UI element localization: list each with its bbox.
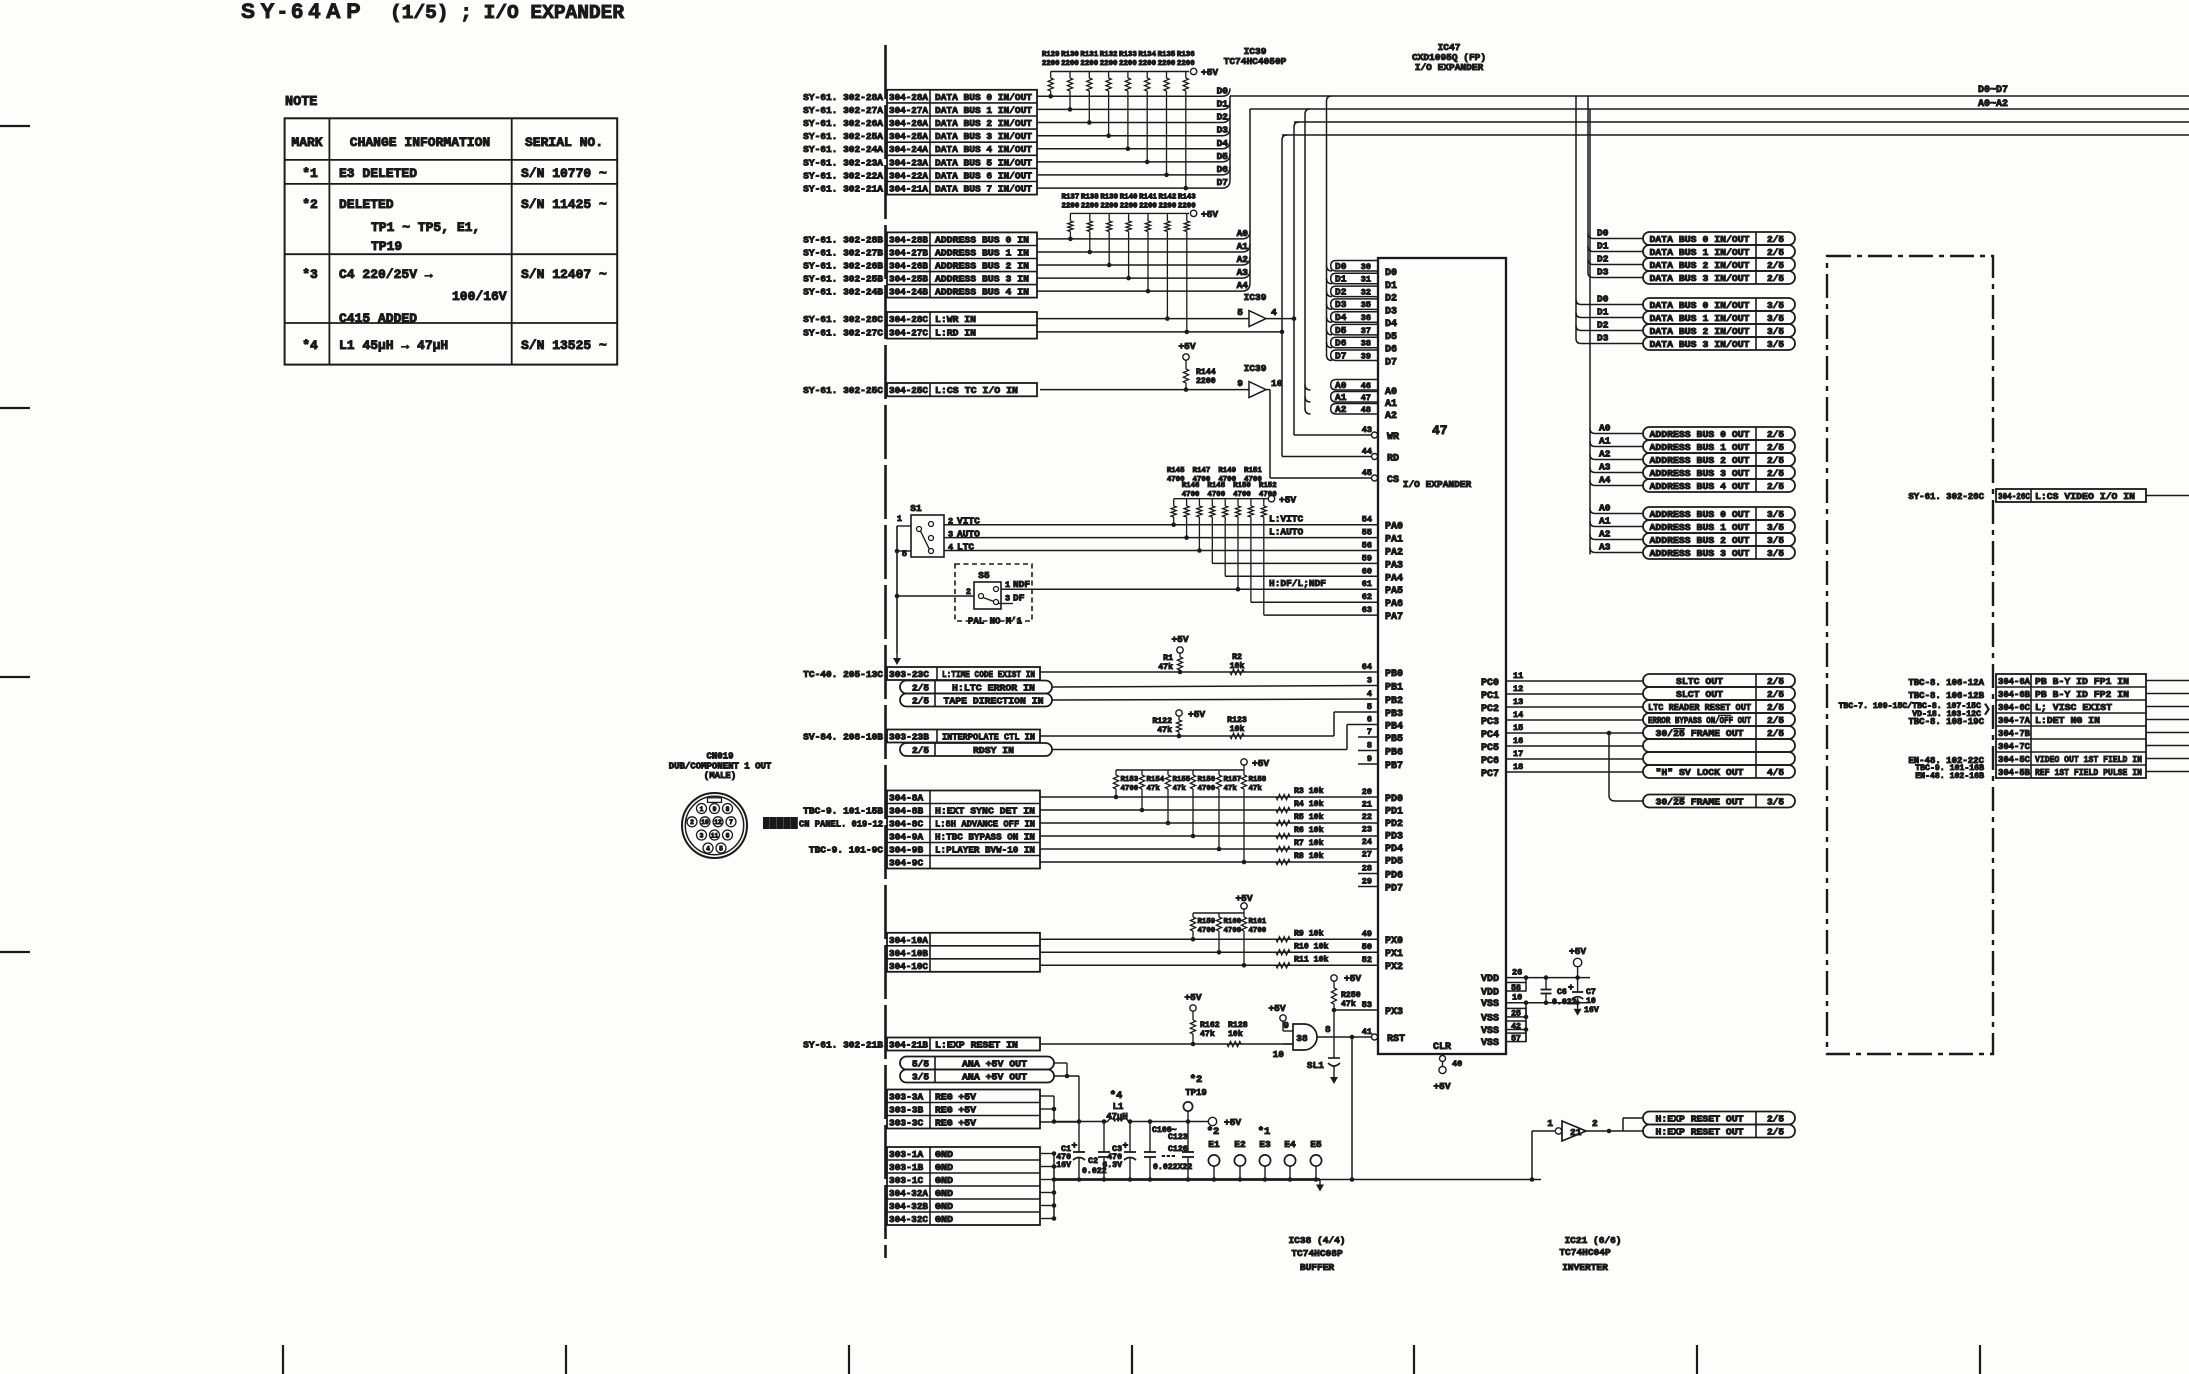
- svg-text:100/16V: 100/16V: [452, 289, 507, 304]
- svg-text:L:CS TC I/O IN: L:CS TC I/O IN: [935, 385, 1018, 396]
- svg-text:A0: A0: [1237, 228, 1249, 239]
- svg-text:D1: D1: [1385, 281, 1397, 292]
- svg-text:26: 26: [1512, 968, 1522, 978]
- svg-text:GND: GND: [935, 1175, 953, 1186]
- svg-text:DATA BUS 0 IN/OUT: DATA BUS 0 IN/OUT: [935, 92, 1032, 103]
- svg-text:7: 7: [729, 819, 733, 826]
- svg-text:SY-61. 302-28A: SY-61. 302-28A: [803, 92, 883, 103]
- svg-text:*4: *4: [1110, 1090, 1123, 1102]
- svg-text:*2: *2: [1207, 1126, 1220, 1138]
- svg-text:MARK: MARK: [291, 135, 322, 150]
- svg-text:2/5: 2/5: [1767, 676, 1784, 687]
- svg-text:ADDRESS BUS 1 OUT: ADDRESS BUS 1 OUT: [1650, 442, 1750, 453]
- svg-text:27: 27: [1362, 850, 1372, 860]
- svg-text:44: 44: [1362, 447, 1372, 457]
- svg-text:S/N 11425 ~: S/N 11425 ~: [521, 197, 607, 212]
- svg-text:PA1: PA1: [1385, 535, 1403, 546]
- svg-text:46: 46: [1361, 381, 1371, 391]
- svg-text:R156: R156: [1198, 776, 1216, 784]
- svg-text:CN019: CN019: [706, 752, 733, 762]
- svg-text:57: 57: [1511, 1034, 1521, 1043]
- svg-text:4700: 4700: [1121, 785, 1139, 793]
- svg-text:DATA BUS 1 IN/OUT: DATA BUS 1 IN/OUT: [935, 105, 1032, 116]
- svg-text:RST: RST: [1387, 1034, 1405, 1045]
- svg-text:SY-61. 302-26A: SY-61. 302-26A: [803, 118, 883, 129]
- svg-text:+: +: [1123, 1140, 1129, 1151]
- svg-text:8: 8: [1325, 1024, 1331, 1035]
- svg-text:ADDRESS BUS 2 OUT: ADDRESS BUS 2 OUT: [1650, 535, 1750, 546]
- svg-text:2200: 2200: [1119, 60, 1137, 68]
- svg-text:5/5: 5/5: [912, 1059, 929, 1070]
- svg-text:ADDRESS BUS 2 IN: ADDRESS BUS 2 IN: [935, 261, 1029, 272]
- svg-text:A0: A0: [1385, 387, 1397, 398]
- svg-text:30/25 FRAME OUT: 30/25 FRAME OUT: [1656, 797, 1744, 808]
- svg-text:R152: R152: [1259, 482, 1277, 490]
- svg-text:ADDRESS BUS 4 IN: ADDRESS BUS 4 IN: [935, 287, 1029, 298]
- svg-text:1: 1: [897, 514, 902, 524]
- svg-text:REG +5V: REG +5V: [935, 1118, 976, 1129]
- svg-text:TC74HC08P: TC74HC08P: [1291, 1248, 1343, 1259]
- svg-text:R149: R149: [1218, 467, 1236, 475]
- svg-text:PD7: PD7: [1385, 884, 1403, 895]
- svg-text:D0: D0: [1597, 228, 1609, 239]
- svg-text:PC0: PC0: [1481, 678, 1499, 689]
- svg-text:D0: D0: [1335, 261, 1347, 272]
- svg-text:A3: A3: [1599, 542, 1611, 553]
- svg-text:SY-61. 302-28B: SY-61. 302-28B: [803, 234, 883, 245]
- svg-text:47: 47: [1361, 393, 1371, 403]
- svg-text:TBC-8. 106-12B: TBC-8. 106-12B: [1908, 691, 1984, 701]
- svg-text:2200: 2200: [1042, 60, 1060, 68]
- svg-text:3/5: 3/5: [1767, 535, 1784, 546]
- svg-text:PA3: PA3: [1385, 560, 1403, 571]
- svg-text:13: 13: [1513, 697, 1523, 707]
- svg-text:R142: R142: [1159, 194, 1177, 202]
- svg-text:SLCT OUT: SLCT OUT: [1676, 689, 1723, 700]
- svg-text:4: 4: [1271, 307, 1277, 318]
- svg-text:R145: R145: [1167, 467, 1185, 475]
- svg-text:SY-61. 302-28C: SY-61. 302-28C: [803, 314, 883, 325]
- svg-text:43: 43: [1362, 425, 1372, 435]
- svg-text:PD0: PD0: [1385, 794, 1403, 805]
- svg-text:D3: D3: [1217, 125, 1229, 136]
- svg-text:5: 5: [1367, 702, 1372, 712]
- svg-text:A4: A4: [1237, 280, 1249, 291]
- svg-text:304-22A: 304-22A: [889, 170, 928, 181]
- svg-text:SY-61. 302-21B: SY-61. 302-21B: [803, 1040, 883, 1051]
- svg-text:304-25B: 304-25B: [889, 274, 928, 285]
- svg-text:A1: A1: [1335, 392, 1347, 403]
- svg-text:L:8H ADVANCE OFF IN: L:8H ADVANCE OFF IN: [935, 819, 1035, 830]
- svg-text:REG +5V: REG +5V: [935, 1105, 976, 1116]
- svg-text:3/5: 3/5: [1767, 339, 1784, 350]
- svg-text:PC7: PC7: [1481, 769, 1499, 780]
- svg-text:38: 38: [1296, 1033, 1308, 1044]
- svg-text:25: 25: [1511, 1010, 1521, 1019]
- svg-text:+5V: +5V: [1252, 758, 1269, 769]
- svg-text:PB6: PB6: [1385, 748, 1403, 759]
- svg-text:VDD: VDD: [1481, 988, 1499, 999]
- svg-text:12: 12: [714, 819, 722, 826]
- svg-text:PA4: PA4: [1385, 573, 1403, 584]
- svg-text:SY-61. 302-27A: SY-61. 302-27A: [803, 105, 883, 116]
- svg-text:+: +: [1568, 982, 1574, 993]
- svg-text:R153: R153: [1121, 776, 1139, 784]
- svg-text:IC21 (6/6): IC21 (6/6): [1564, 1235, 1621, 1246]
- svg-text:SY-61. 302-26B: SY-61. 302-26B: [803, 261, 883, 272]
- svg-text:PC5: PC5: [1481, 743, 1499, 754]
- svg-text:304-24A: 304-24A: [889, 144, 928, 155]
- svg-text:4700: 4700: [1224, 927, 1242, 935]
- svg-text:304-7C: 304-7C: [1998, 741, 2030, 752]
- svg-text:53: 53: [1362, 1000, 1372, 1010]
- svg-text:A0: A0: [1599, 503, 1611, 514]
- svg-text:SY-61. 302-24A: SY-61. 302-24A: [803, 144, 883, 155]
- svg-text:R5 10k: R5 10k: [1294, 812, 1324, 822]
- svg-text:R150: R150: [1233, 482, 1251, 490]
- svg-text:303-3A: 303-3A: [889, 1092, 924, 1103]
- svg-text:D2: D2: [1597, 254, 1609, 265]
- svg-text:16V: 16V: [1584, 1006, 1599, 1015]
- svg-text:3: 3: [700, 832, 704, 839]
- svg-text:+: +: [1072, 1140, 1078, 1151]
- svg-text:R155: R155: [1173, 776, 1191, 784]
- svg-text:ADDRESS BUS 2 OUT: ADDRESS BUS 2 OUT: [1650, 455, 1750, 466]
- svg-text:R135: R135: [1158, 51, 1176, 59]
- svg-text:*1: *1: [302, 166, 318, 181]
- svg-text:47k: 47k: [1249, 785, 1263, 793]
- svg-text:DATA BUS 1 IN/OUT: DATA BUS 1 IN/OUT: [1650, 247, 1750, 258]
- svg-text:3/5: 3/5: [1767, 548, 1784, 559]
- svg-text:C415 ADDED: C415 ADDED: [339, 311, 417, 326]
- svg-text:304-23A: 304-23A: [889, 157, 928, 168]
- svg-text:304-8A: 304-8A: [889, 793, 924, 804]
- svg-text:38: 38: [1361, 339, 1371, 349]
- svg-text:PC3: PC3: [1481, 717, 1499, 728]
- svg-text:I/O EXPANDER: I/O EXPANDER: [1415, 62, 1484, 73]
- svg-text:INTERPOLATE CTL IN: INTERPOLATE CTL IN: [942, 732, 1035, 743]
- svg-text:R7 10k: R7 10k: [1294, 838, 1324, 848]
- svg-text:D0: D0: [1385, 268, 1397, 279]
- svg-text:2200: 2200: [1138, 60, 1156, 68]
- svg-text:56: 56: [1362, 541, 1372, 551]
- svg-text:304-26B: 304-26B: [889, 261, 928, 272]
- svg-text:8: 8: [1367, 741, 1372, 751]
- svg-text:3/5: 3/5: [1767, 797, 1784, 808]
- svg-text:R129: R129: [1042, 51, 1060, 59]
- svg-text:L1: L1: [1113, 1102, 1124, 1112]
- svg-text:PD4: PD4: [1385, 844, 1403, 855]
- svg-text:2/5: 2/5: [1767, 481, 1784, 492]
- svg-text:304-21A: 304-21A: [889, 184, 928, 195]
- svg-text:SY-61. 302-22A: SY-61. 302-22A: [803, 170, 883, 181]
- svg-text:*4: *4: [302, 338, 318, 353]
- svg-text:NOTE: NOTE: [285, 95, 317, 110]
- svg-text:PA6: PA6: [1385, 599, 1403, 610]
- svg-text:INVERTER: INVERTER: [1562, 1262, 1608, 1273]
- svg-text:DATA BUS 5 IN/OUT: DATA BUS 5 IN/OUT: [935, 157, 1032, 168]
- svg-text:R140: R140: [1120, 194, 1138, 202]
- svg-text:D7: D7: [1385, 358, 1397, 369]
- svg-text:---: ---: [1161, 1152, 1176, 1161]
- svg-text:+5V: +5V: [1279, 495, 1296, 506]
- svg-text:PB1: PB1: [1385, 683, 1403, 694]
- svg-text:24: 24: [1362, 837, 1372, 847]
- svg-text:R4 10k: R4 10k: [1294, 799, 1324, 809]
- svg-text:SY-64AP: SY-64AP: [241, 0, 366, 23]
- svg-text:4: 4: [706, 845, 710, 852]
- svg-text:D2: D2: [1385, 294, 1397, 305]
- svg-text:R141: R141: [1139, 194, 1157, 202]
- svg-text:47k: 47k: [1157, 725, 1172, 735]
- svg-text:+5V: +5V: [1224, 1117, 1241, 1128]
- svg-text:30/25 FRAME OUT: 30/25 FRAME OUT: [1656, 728, 1744, 739]
- svg-text:1: 1: [1547, 1118, 1553, 1129]
- svg-text:CLR: CLR: [1433, 1042, 1451, 1053]
- svg-text:D4: D4: [1335, 312, 1347, 323]
- svg-text:ADDRESS BUS 4 OUT: ADDRESS BUS 4 OUT: [1650, 481, 1750, 492]
- svg-text:D2: D2: [1335, 286, 1347, 297]
- svg-text:2/5: 2/5: [1767, 260, 1784, 271]
- svg-text:DATA BUS 3 IN/OUT: DATA BUS 3 IN/OUT: [1650, 339, 1750, 350]
- svg-text:A2: A2: [1599, 449, 1611, 460]
- svg-text:SERIAL NO.: SERIAL NO.: [525, 135, 603, 150]
- svg-text:2200: 2200: [1100, 60, 1118, 68]
- svg-text:ADDRESS BUS 3 OUT: ADDRESS BUS 3 OUT: [1650, 548, 1750, 559]
- svg-text:TC74HC4050P: TC74HC4050P: [1224, 56, 1287, 67]
- svg-text:4700: 4700: [1182, 491, 1200, 499]
- svg-text:5: 5: [1237, 307, 1243, 318]
- svg-text:PX1: PX1: [1385, 949, 1403, 960]
- svg-text:DATA BUS 4 IN/OUT: DATA BUS 4 IN/OUT: [935, 144, 1032, 155]
- svg-text:TBC-8. 108-19C: TBC-8. 108-19C: [1908, 717, 1984, 727]
- svg-text:DATA BUS 2 IN/OUT: DATA BUS 2 IN/OUT: [935, 118, 1032, 129]
- svg-text:14: 14: [1513, 710, 1523, 720]
- svg-text:SY-61. 302-25B: SY-61. 302-25B: [803, 274, 883, 285]
- svg-text:A1: A1: [1385, 399, 1397, 410]
- svg-text:D5: D5: [1217, 151, 1229, 162]
- svg-text:11: 11: [711, 832, 719, 839]
- svg-text:47k: 47k: [1173, 785, 1187, 793]
- svg-text:PA5: PA5: [1385, 586, 1403, 597]
- svg-text:2200: 2200: [1120, 203, 1138, 211]
- svg-text:D7: D7: [1335, 350, 1347, 361]
- svg-text:DF: DF: [1013, 593, 1025, 604]
- svg-text:47µH: 47µH: [1106, 1112, 1128, 1122]
- svg-text:E2: E2: [1234, 1139, 1246, 1150]
- svg-text:SV-84. 208-10B: SV-84. 208-10B: [803, 732, 883, 743]
- svg-text:304-8B: 304-8B: [889, 806, 924, 817]
- svg-text:3/5: 3/5: [912, 1072, 929, 1083]
- svg-text:2200: 2200: [1139, 203, 1157, 211]
- svg-text:REG +5V: REG +5V: [935, 1092, 976, 1103]
- svg-text:D6: D6: [1335, 338, 1347, 349]
- svg-text:A1: A1: [1237, 241, 1249, 252]
- svg-text:CN PANEL. 019-12: CN PANEL. 019-12: [799, 820, 883, 830]
- svg-text:S1: S1: [910, 503, 922, 514]
- svg-text:A2: A2: [1335, 404, 1347, 415]
- svg-text:61: 61: [1362, 579, 1372, 589]
- svg-text:A3: A3: [1237, 267, 1249, 278]
- svg-text:7: 7: [1367, 727, 1372, 737]
- svg-text:4700: 4700: [1259, 491, 1277, 499]
- svg-text:LTC READER RESET OUT: LTC READER RESET OUT: [1648, 702, 1751, 713]
- svg-text:R148: R148: [1207, 482, 1225, 490]
- svg-text:R1: R1: [1163, 654, 1173, 663]
- svg-text:303-1A: 303-1A: [889, 1149, 924, 1160]
- svg-text:D1: D1: [1597, 307, 1609, 318]
- svg-text:16V: 16V: [1056, 1161, 1071, 1170]
- svg-text:49: 49: [1362, 929, 1372, 939]
- svg-text:R130: R130: [1061, 51, 1079, 59]
- svg-text:2/5: 2/5: [1767, 442, 1784, 453]
- svg-text:PD2: PD2: [1385, 819, 1403, 830]
- svg-text:304-27A: 304-27A: [889, 105, 928, 116]
- svg-text:D7: D7: [1217, 177, 1229, 188]
- svg-text:DELETED: DELETED: [339, 197, 394, 212]
- svg-text:PB B-Y ID FP1 IN: PB B-Y ID FP1 IN: [2035, 676, 2129, 687]
- svg-text:47k: 47k: [1341, 999, 1356, 1009]
- svg-text:32: 32: [1361, 287, 1371, 297]
- svg-text:16: 16: [1513, 736, 1523, 746]
- svg-text:E4: E4: [1284, 1139, 1296, 1150]
- svg-text:+5V: +5V: [1201, 67, 1218, 78]
- svg-text:DATA BUS 1 IN/OUT: DATA BUS 1 IN/OUT: [1650, 313, 1750, 324]
- svg-text:NDF: NDF: [1013, 579, 1030, 590]
- svg-text:H:EXP RESET OUT: H:EXP RESET OUT: [1656, 1114, 1744, 1125]
- svg-text:R136: R136: [1177, 51, 1195, 59]
- svg-text:PC6: PC6: [1481, 756, 1499, 767]
- svg-text:2200: 2200: [1159, 203, 1177, 211]
- svg-text:+5V: +5V: [1569, 946, 1586, 957]
- svg-text:R134: R134: [1138, 51, 1156, 59]
- svg-text:+5V: +5V: [1178, 341, 1195, 352]
- svg-text:D0~D7: D0~D7: [1978, 85, 2008, 96]
- svg-text:+5V: +5V: [1201, 209, 1218, 220]
- svg-text:304-25A: 304-25A: [889, 131, 928, 142]
- svg-text:58: 58: [1511, 984, 1521, 993]
- svg-text:R6 10k: R6 10k: [1294, 825, 1324, 835]
- svg-text:D1: D1: [1597, 241, 1609, 252]
- svg-text:36: 36: [1361, 313, 1371, 323]
- svg-text:4700: 4700: [1207, 491, 1225, 499]
- svg-text:2/5: 2/5: [1767, 715, 1784, 726]
- svg-text:304-28A: 304-28A: [889, 92, 928, 103]
- svg-text:L:DET NG IN: L:DET NG IN: [2035, 715, 2100, 726]
- svg-text:ANA +5V OUT: ANA +5V OUT: [962, 1072, 1027, 1083]
- svg-text:304-7B: 304-7B: [1998, 728, 2030, 739]
- svg-text:303-1C: 303-1C: [889, 1175, 924, 1186]
- svg-text:2200: 2200: [1196, 377, 1216, 386]
- svg-text:R158: R158: [1249, 776, 1267, 784]
- svg-text:E3 DELETED: E3 DELETED: [339, 166, 417, 181]
- svg-text:63: 63: [1362, 605, 1372, 615]
- svg-text:10k: 10k: [1228, 1029, 1243, 1039]
- svg-text:R10 10k: R10 10k: [1294, 941, 1328, 951]
- svg-text:2200: 2200: [1081, 203, 1099, 211]
- svg-text:L; VISC EXIST: L; VISC EXIST: [2035, 702, 2112, 713]
- svg-text:304-32B: 304-32B: [889, 1201, 928, 1212]
- svg-text:304-7A: 304-7A: [1998, 715, 2030, 726]
- svg-text:R160: R160: [1224, 918, 1242, 926]
- svg-text:PX3: PX3: [1385, 1007, 1403, 1018]
- svg-text:11: 11: [1513, 671, 1523, 681]
- svg-text:D4: D4: [1217, 138, 1229, 149]
- svg-text:D6: D6: [1385, 345, 1397, 356]
- svg-text:2200: 2200: [1062, 203, 1080, 211]
- svg-text:RD: RD: [1387, 454, 1399, 465]
- svg-text:1: 1: [700, 806, 704, 813]
- svg-text:6.3V: 6.3V: [1102, 1161, 1122, 1170]
- svg-text:9: 9: [1283, 1020, 1289, 1031]
- svg-text:303-23B: 303-23B: [889, 732, 929, 743]
- svg-text:C6: C6: [1557, 988, 1567, 997]
- svg-text:A0~A2: A0~A2: [1978, 99, 2008, 110]
- svg-text:ADDRESS BUS 1 OUT: ADDRESS BUS 1 OUT: [1650, 522, 1750, 533]
- svg-text:4: 4: [1367, 689, 1372, 699]
- svg-text:2: 2: [690, 819, 694, 826]
- svg-text:2/5: 2/5: [912, 683, 929, 694]
- svg-text:4700: 4700: [1249, 927, 1267, 935]
- svg-text:SY-61. 302-25A: SY-61. 302-25A: [803, 131, 883, 142]
- svg-text:GND: GND: [935, 1188, 953, 1199]
- svg-text:SY-61. 302-27C: SY-61. 302-27C: [803, 327, 883, 338]
- svg-text:PD3: PD3: [1385, 832, 1403, 843]
- svg-text:TP19: TP19: [1185, 1088, 1207, 1098]
- svg-text:S5: S5: [978, 570, 990, 581]
- svg-text:D0: D0: [1597, 294, 1609, 305]
- svg-text:47: 47: [1432, 423, 1448, 438]
- svg-text:R9 10k: R9 10k: [1294, 928, 1324, 938]
- svg-text:+5V: +5V: [1344, 973, 1361, 984]
- svg-text:304-24B: 304-24B: [889, 287, 928, 298]
- svg-text:D3: D3: [1385, 306, 1397, 317]
- svg-text:C4 220/25V →: C4 220/25V →: [339, 267, 433, 282]
- svg-text:5: 5: [719, 845, 723, 852]
- svg-text:3/5: 3/5: [1767, 313, 1784, 324]
- svg-text:304-5C: 304-5C: [1998, 754, 2030, 765]
- svg-text:REF 1ST FIELD PULSE IN: REF 1ST FIELD PULSE IN: [2035, 767, 2142, 778]
- svg-text:2/5: 2/5: [912, 745, 929, 756]
- svg-text:R3 10k: R3 10k: [1294, 786, 1324, 796]
- svg-text:DATA BUS 0 IN/OUT: DATA BUS 0 IN/OUT: [1650, 300, 1750, 311]
- svg-text:D2: D2: [1597, 320, 1609, 331]
- svg-text:WR: WR: [1387, 432, 1399, 443]
- svg-text:R250: R250: [1341, 991, 1361, 1000]
- svg-text:30: 30: [1361, 262, 1371, 272]
- svg-text:304-6B: 304-6B: [1998, 689, 2030, 700]
- svg-text:R128: R128: [1228, 1021, 1248, 1030]
- svg-text:ADDRESS BUS 0 OUT: ADDRESS BUS 0 OUT: [1650, 429, 1750, 440]
- svg-text:48: 48: [1361, 405, 1371, 415]
- svg-text:47k: 47k: [1158, 662, 1173, 672]
- svg-text:DATA BUS 7 IN/OUT: DATA BUS 7 IN/OUT: [935, 184, 1032, 195]
- svg-text:R8 10k: R8 10k: [1294, 851, 1324, 861]
- svg-text:10: 10: [1273, 1049, 1285, 1060]
- svg-text:2/5: 2/5: [1767, 728, 1784, 739]
- svg-text:3/5: 3/5: [1767, 509, 1784, 520]
- svg-text:TC-40. 205-13C: TC-40. 205-13C: [803, 669, 883, 680]
- svg-text:D3: D3: [1597, 267, 1609, 278]
- svg-text:304-9A: 304-9A: [889, 832, 924, 843]
- svg-text:E1: E1: [1208, 1139, 1220, 1150]
- svg-text:L:EXP RESET IN: L:EXP RESET IN: [935, 1040, 1018, 1051]
- svg-text:PAL NO M’1: PAL NO M’1: [968, 617, 1023, 627]
- svg-text:304-28B: 304-28B: [889, 234, 928, 245]
- svg-text:3: 3: [1367, 676, 1372, 686]
- svg-text:4700: 4700: [1198, 785, 1216, 793]
- svg-text:22: 22: [1362, 812, 1372, 822]
